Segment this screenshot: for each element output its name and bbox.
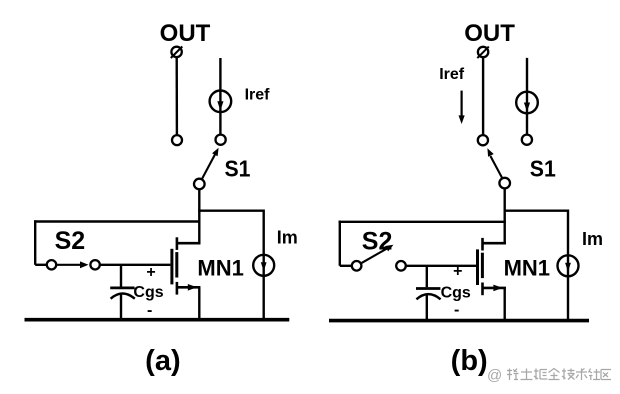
label Iref (a) bbox=[245, 86, 271, 103]
wire Cgs to ground (b) bbox=[426, 294, 428, 322]
svg-text:S2: S2 bbox=[362, 227, 393, 255]
svg-text:MN1: MN1 bbox=[197, 255, 243, 280]
svg-text:Iref: Iref bbox=[245, 86, 271, 103]
svg-text:S2: S2 bbox=[55, 227, 86, 255]
wire OUT branch vertical (a) bbox=[175, 57, 178, 135]
svg-text:Im: Im bbox=[277, 228, 298, 248]
wire S2 loop top (a) bbox=[34, 220, 200, 222]
current source Im (a) bbox=[253, 255, 274, 276]
node circle Iref branch bottom (a) bbox=[216, 135, 226, 145]
wire S2 loop left vertical (a) bbox=[34, 220, 36, 264]
wire OUT branch vertical (b) bbox=[482, 57, 484, 135]
label Cgs (a) bbox=[133, 284, 163, 301]
switch S2 right contact circle (a) bbox=[90, 260, 99, 269]
wire S2 to gate (b) bbox=[406, 265, 476, 267]
label Im (b) bbox=[582, 229, 603, 249]
wire S1 to drain junction (b) bbox=[504, 188, 506, 244]
switch S2 right contact circle (b) bbox=[396, 261, 406, 271]
wire drain junction to Im branch (b) bbox=[504, 209, 569, 211]
label S1 (b) bbox=[530, 156, 556, 182]
label MN1 (b) bbox=[504, 255, 550, 280]
label (a) bbox=[145, 345, 180, 377]
svg-text:Im: Im bbox=[582, 229, 603, 249]
svg-text:OUT: OUT bbox=[160, 20, 211, 47]
arrow Iref current direction (b) bbox=[459, 91, 465, 124]
label MN1 (a) bbox=[197, 255, 243, 280]
label minus (b) bbox=[454, 302, 459, 319]
label minus (a) bbox=[147, 302, 152, 319]
wire drain junction to Im branch (a) bbox=[198, 209, 264, 211]
ground rail (a) bbox=[25, 318, 290, 322]
wire Cgs branch (b) bbox=[426, 266, 428, 287]
node OUT label (a) bbox=[160, 20, 211, 47]
svg-text:OUT: OUT bbox=[464, 20, 515, 47]
transistor MN1 (b) bbox=[478, 238, 507, 295]
switch S1 arm (b) bbox=[487, 148, 502, 178]
terminal OUT (a) bbox=[171, 47, 183, 59]
svg-text:S1: S1 bbox=[530, 156, 556, 182]
switch S2 closed arm with arrow (a) bbox=[56, 261, 88, 268]
svg-text:Iref: Iref bbox=[439, 66, 465, 83]
switch S2 left contact circle (a) bbox=[47, 260, 56, 269]
wire Im branch (a) bbox=[263, 210, 265, 322]
current source Iref (a) bbox=[210, 91, 232, 113]
node circle S1 bottom (a) bbox=[194, 179, 205, 190]
wire Iref branch (a) bbox=[219, 58, 221, 135]
node circle OUT branch bottom (a) bbox=[172, 135, 182, 145]
wire Cgs branch (a) bbox=[120, 265, 122, 287]
wire to S2 left contact (a) bbox=[35, 264, 47, 266]
svg-text:+: + bbox=[453, 263, 462, 280]
svg-text:(a): (a) bbox=[145, 345, 180, 377]
svg-text:-: - bbox=[147, 302, 152, 319]
label Cgs (b) bbox=[441, 284, 471, 301]
wire S2 loop left vertical (b) bbox=[339, 221, 341, 266]
node OUT label (b) bbox=[464, 20, 515, 47]
wire Im branch (b) bbox=[567, 210, 569, 323]
wire MN1 source to ground (a) bbox=[198, 287, 200, 321]
wire to S2 left contact (b) bbox=[340, 265, 352, 267]
label S1 (a) bbox=[225, 156, 251, 182]
wire Iref branch (b) bbox=[526, 58, 528, 135]
terminal OUT (b) bbox=[477, 47, 489, 59]
current source Iref unlabeled (b) bbox=[516, 92, 538, 114]
label plus (a) bbox=[146, 264, 155, 281]
wire S1 to drain junction (a) bbox=[198, 189, 200, 244]
label (b) bbox=[451, 345, 488, 377]
svg-text:MN1: MN1 bbox=[504, 255, 550, 280]
wire Cgs to ground (a) bbox=[120, 294, 122, 321]
label Im (a) bbox=[277, 228, 298, 248]
switch S2 left contact circle (b) bbox=[352, 261, 362, 271]
current source Im (b) bbox=[558, 255, 579, 276]
capacitor Cgs (b) bbox=[416, 289, 441, 300]
ground rail (b) bbox=[329, 319, 589, 323]
svg-text:S1: S1 bbox=[225, 156, 251, 182]
switch S1 arm (a) bbox=[202, 148, 219, 180]
svg-text:Cgs: Cgs bbox=[133, 284, 163, 301]
svg-text:-: - bbox=[454, 302, 459, 319]
label plus (b) bbox=[453, 263, 462, 280]
svg-text:(b): (b) bbox=[451, 345, 488, 377]
node circle Iref branch bottom (b) bbox=[522, 135, 532, 145]
switch S2 open arm with arrow (b) bbox=[361, 245, 394, 264]
capacitor Cgs (a) bbox=[110, 288, 135, 299]
svg-text:@: @ bbox=[487, 367, 502, 384]
label S2 (b) bbox=[362, 227, 393, 255]
node circle OUT branch bottom (b) bbox=[478, 135, 488, 145]
wire MN1 source to ground (b) bbox=[504, 288, 506, 322]
label S2 (a) bbox=[55, 227, 86, 255]
watermark bbox=[487, 367, 611, 384]
svg-text:+: + bbox=[146, 264, 155, 281]
transistor MN1 (a) bbox=[172, 237, 201, 294]
svg-text:Cgs: Cgs bbox=[441, 284, 471, 301]
node circle S1 bottom (b) bbox=[499, 178, 510, 189]
wire S2 loop top (b) bbox=[339, 221, 506, 223]
label Iref (b) bbox=[439, 66, 465, 83]
wire S2 to gate (a) bbox=[100, 264, 171, 266]
